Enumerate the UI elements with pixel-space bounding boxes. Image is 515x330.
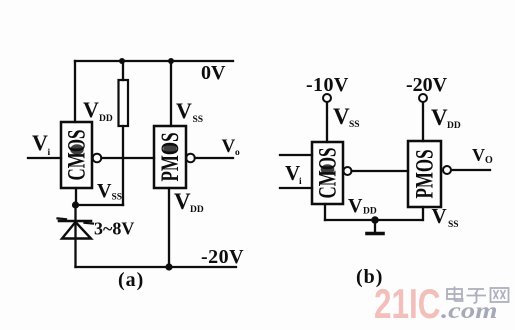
svg-text:DD: DD [190, 205, 204, 215]
svg-text:SS: SS [193, 115, 204, 125]
svg-text:i: i [48, 148, 51, 158]
svg-text:O: O [485, 155, 493, 166]
svg-text:V: V [222, 136, 236, 157]
svg-text:i: i [299, 177, 302, 187]
svg-text:V: V [176, 98, 192, 123]
svg-text:V: V [432, 204, 447, 228]
svg-text:(a): (a) [118, 269, 144, 291]
svg-text:V: V [83, 97, 99, 122]
svg-text:CMOS: CMOS [62, 130, 90, 181]
svg-text:V: V [431, 105, 448, 130]
svg-text:DD: DD [363, 207, 377, 217]
svg-text:V: V [285, 161, 300, 185]
svg-text:SS: SS [112, 193, 123, 203]
svg-text:SS: SS [349, 120, 360, 130]
svg-text:DD: DD [99, 114, 113, 124]
svg-text:-10V: -10V [306, 74, 349, 96]
svg-text:V: V [174, 189, 191, 214]
svg-text:SS: SS [448, 220, 459, 230]
svg-text:DD: DD [447, 121, 461, 131]
svg-text:V: V [333, 104, 350, 129]
svg-text:0V: 0V [201, 62, 226, 84]
svg-text:-20V: -20V [201, 246, 244, 268]
svg-text:21IC: 21IC [374, 280, 441, 328]
svg-text:3~8V: 3~8V [94, 219, 134, 239]
svg-text:.com: .com [441, 297, 498, 323]
svg-text:PMOS: PMOS [156, 132, 184, 181]
svg-text:V: V [32, 130, 48, 155]
svg-text:o: o [235, 148, 240, 158]
svg-text:-20V: -20V [406, 74, 448, 96]
svg-text:V: V [97, 180, 112, 202]
svg-text:CMOS: CMOS [313, 148, 341, 199]
svg-text:V: V [472, 145, 485, 165]
svg-text:PMOS: PMOS [410, 149, 438, 198]
svg-text:V: V [348, 195, 363, 217]
